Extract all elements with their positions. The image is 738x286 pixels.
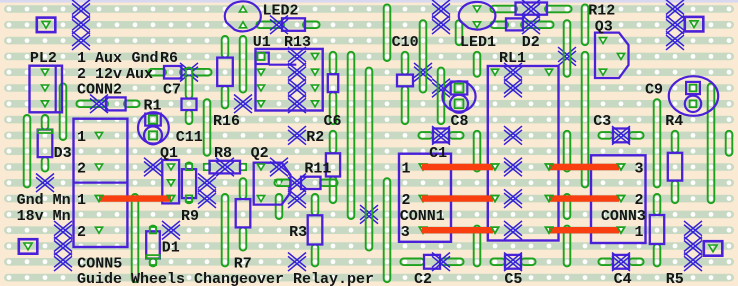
RL1 pin col 27 row 12 — [491, 196, 498, 202]
pad P2 (mount pad, col 1 row 15) — [19, 239, 38, 254]
svg-text:R6: R6 — [160, 50, 178, 67]
svg-text:LED2: LED2 — [263, 3, 299, 20]
label "Guide Wheels Changeover Relay.per" — [77, 271, 374, 286]
label "2 12v" — [77, 66, 122, 83]
track cut at col 16 row 6 (under U1) — [288, 95, 306, 114]
label "C4" — [614, 271, 632, 286]
svg-text:C11: C11 — [176, 129, 203, 146]
track cut at col 9 row 14 — [162, 221, 180, 240]
label "R5" — [666, 271, 684, 286]
Q2 pin middle — [275, 180, 282, 186]
label "C3" — [593, 113, 611, 130]
Q2 pin row 10 — [257, 164, 264, 170]
capacitor C4 — [598, 253, 643, 272]
pad P3 (mount pad, col 38 row 1) — [685, 17, 704, 32]
track cut at col 13 row 6 — [234, 95, 252, 114]
svg-text:R4: R4 — [665, 113, 683, 130]
label "LED2" — [263, 3, 299, 20]
wire link col 31 rows 1-4 — [564, 20, 571, 77]
label "Gnd Mn" — [17, 192, 71, 209]
red link CONN1 to RL1 row 14 — [419, 227, 498, 233]
wire link col 3 rows 5-8 — [60, 83, 67, 140]
capacitor C2 — [400, 253, 463, 272]
capacitor C1 — [418, 126, 463, 145]
label "R4" — [665, 113, 683, 130]
label "RL1" — [499, 50, 526, 67]
PL2 pin 1 — [41, 69, 48, 75]
wire link col 7 rows 12-17 — [132, 194, 139, 282]
svg-text:D1: D1 — [162, 240, 180, 257]
RL1 pin col 30 row 4 — [545, 69, 552, 75]
wire link col 40 rows 8-9 — [726, 131, 733, 156]
Q3 pin 3 — [599, 69, 606, 75]
svg-text:Aux: Aux — [126, 66, 153, 83]
LED1 outline — [459, 2, 496, 30]
label "C9" — [645, 82, 663, 99]
track cut at col 37 row 1 — [666, 16, 684, 35]
resistor R5 — [650, 194, 664, 266]
relay RL1 outline — [488, 66, 559, 241]
track cut at col 24 row 0 — [432, 0, 450, 18]
red link RL1 to CONN3 row 14 — [545, 227, 624, 233]
svg-text:CONN2: CONN2 — [77, 82, 122, 99]
RL1 pin col 30 row 12 — [545, 196, 552, 202]
transistor Q1 outline — [162, 160, 179, 203]
label "C11" — [176, 129, 203, 146]
track cut at col 15 row 10 (on Q2) — [270, 158, 288, 177]
svg-text:D3: D3 — [54, 145, 72, 162]
label "C8" — [451, 113, 469, 130]
svg-text:LED1: LED1 — [460, 34, 496, 51]
label "C1" — [429, 145, 447, 162]
wire link col 24 rows 4-7 — [438, 68, 445, 125]
track cut at col 3 row 16 — [54, 253, 72, 272]
capacitor C6 — [328, 52, 338, 124]
track cut at col 16 row 3 (under U1) — [288, 47, 306, 66]
svg-text:1: 1 — [402, 161, 411, 178]
label "R13" — [284, 34, 311, 51]
label "C10" — [392, 34, 419, 51]
svg-text:U1: U1 — [253, 34, 271, 51]
label "D2" — [522, 34, 540, 51]
connector CONN3 outline — [591, 155, 646, 243]
label "C5" — [504, 271, 522, 286]
svg-text:Q2: Q2 — [251, 145, 269, 162]
connector CONN5 outline — [74, 119, 128, 247]
wire link col 26 rows 8-10 — [474, 131, 481, 172]
track cut at col 37 row 2 — [666, 31, 684, 50]
svg-text:C6: C6 — [324, 113, 342, 130]
label "R6" — [160, 50, 178, 67]
track cut at col 8 row 10 — [144, 158, 162, 177]
op-amp U1 (DIP-8) — [256, 49, 323, 111]
pad P4 (mount pad, col 39 row 15) — [704, 241, 723, 256]
CONN3 pin row 10 — [617, 164, 624, 170]
wire link col 31 rows 8-10 — [564, 131, 571, 172]
wire link col 12 rows 12-16 — [222, 194, 229, 266]
track cut at col 28 row 12 (under RL1) — [504, 189, 522, 208]
label "R2" — [306, 129, 324, 146]
track cut at col 28 row 10 (under RL1) — [504, 158, 522, 177]
svg-text:C1: C1 — [429, 145, 447, 162]
connector CONN1 outline — [399, 154, 451, 242]
red link CONN1 to RL1 row 10 — [419, 164, 498, 170]
wire link col 26 rows 14-16 — [474, 226, 481, 267]
track cut at col 20 row 13 — [360, 205, 378, 224]
pad P1 (mount pad, col 2 row 1) — [37, 18, 56, 32]
CONN5 pin 1b — [95, 196, 102, 202]
track cut at col 38 row 15 — [684, 237, 702, 256]
svg-text:1: 1 — [77, 192, 86, 209]
resistor R16 — [217, 36, 233, 108]
svg-text:Gnd Mn: Gnd Mn — [17, 192, 71, 209]
track cut at col 28 row 4 (under RL1) — [504, 63, 522, 82]
label "3" — [635, 161, 644, 178]
svg-text:CONN1: CONN1 — [400, 208, 445, 225]
wire link col 32 rows 0-2 — [582, 4, 589, 45]
label "D1" — [162, 240, 180, 257]
connector PL2 outline — [30, 66, 63, 113]
CONN1 pin row 14 — [419, 227, 426, 233]
svg-text:C8: C8 — [451, 113, 469, 130]
svg-text:R7: R7 — [234, 255, 252, 272]
label "LED1" — [460, 34, 496, 51]
label "Q3" — [595, 18, 613, 35]
svg-text:R5: R5 — [666, 271, 684, 286]
label "R1" — [144, 97, 162, 114]
RL1 pin col 30 row 14 — [545, 227, 552, 233]
CONN5 pin 1a — [95, 132, 102, 138]
track cut at col 24 row 1 — [432, 16, 450, 35]
svg-text:R2: R2 — [306, 129, 324, 146]
diode D3 — [38, 115, 53, 172]
Q3 pin 2 — [617, 53, 624, 59]
label "R7" — [234, 255, 252, 272]
svg-text:D2: D2 — [522, 34, 540, 51]
label "1" — [635, 224, 644, 241]
RL1 pin col 30 row 10 — [545, 164, 552, 170]
wire link col 15 rows 12-13 — [276, 194, 283, 219]
LED2 outline — [225, 1, 261, 31]
track cut at col 16 row 4 (under U1) — [288, 63, 306, 82]
Q1 pin row 11 — [167, 180, 174, 186]
label "CONN1" — [400, 208, 445, 225]
label "1" — [77, 192, 86, 209]
svg-text:2 12v: 2 12v — [77, 66, 122, 83]
resistor R8 — [204, 158, 246, 177]
CONN5 pin 2b — [95, 227, 102, 233]
wire link col 25 rows 1-2 — [456, 20, 463, 45]
wire link col 32 rows 3-11 — [582, 52, 589, 188]
svg-text:R11: R11 — [304, 161, 331, 178]
svg-text:3: 3 — [635, 161, 644, 178]
label "R9" — [181, 208, 199, 225]
label "R11" — [304, 161, 331, 178]
label "CONN2" — [77, 82, 122, 99]
wire link col 26 rows 3-4 — [474, 52, 481, 77]
label "CONN5" — [77, 255, 122, 272]
wire link col 21 rows 11-17 — [384, 178, 391, 282]
label "1 Aux" — [77, 50, 122, 67]
transistor Q2 outline — [254, 163, 291, 205]
label "2" — [402, 192, 411, 209]
diode D2 — [490, 16, 553, 35]
svg-text:CONN5: CONN5 — [77, 255, 122, 272]
svg-text:R9: R9 — [181, 208, 199, 225]
wire link col 39 rows 5-12 — [708, 83, 715, 203]
svg-text:CONN3: CONN3 — [601, 208, 646, 225]
track cut at col 28 row 8 (under RL1) — [504, 126, 522, 145]
svg-text:C4: C4 — [614, 271, 632, 286]
resistor R6 — [148, 63, 211, 82]
svg-text:R13: R13 — [284, 34, 311, 51]
PL2 pin 3 — [41, 101, 48, 107]
resistor R13 — [256, 16, 319, 35]
CONN3 pin row 14 — [617, 227, 624, 233]
label "2" — [635, 192, 644, 209]
track cut at col 16 row 16 — [288, 253, 306, 272]
wire link col 20 rows 4-15 — [366, 68, 373, 251]
label "3" — [401, 224, 410, 241]
Q3 pin 1 — [599, 38, 606, 44]
track cut at col 4 row 1 — [72, 16, 90, 35]
svg-text:2: 2 — [77, 224, 86, 241]
CONN5 pin 2a — [95, 164, 102, 170]
svg-text:18v Mn: 18v Mn — [17, 208, 71, 225]
red link CONN1 to RL1 row 12 — [419, 196, 498, 202]
resistor R7 — [236, 178, 251, 250]
svg-text:2: 2 — [77, 161, 86, 178]
svg-text:R16: R16 — [213, 113, 240, 130]
capacitor C10 — [397, 52, 413, 124]
track cut at col 16 row 8 — [288, 126, 306, 145]
PL2 pin 2 — [41, 85, 48, 91]
svg-text:Guide Wheels Changeover Relay.: Guide Wheels Changeover Relay.per — [77, 271, 374, 286]
wire link col 1 rows 7-11 — [24, 115, 31, 187]
wire link col 13 rows 2-5 — [240, 36, 247, 93]
label "CONN3" — [601, 208, 646, 225]
red link CONN5 pin1b to Q1 pin3 — [95, 196, 174, 202]
label "1" — [402, 161, 411, 178]
wire link col 11 rows 6-9 — [204, 99, 211, 156]
resistor R9 — [182, 162, 196, 203]
track cut at col 3 row 14 — [54, 221, 72, 240]
label "18v Mn" — [17, 208, 71, 225]
svg-text:Q1: Q1 — [160, 145, 178, 162]
track cut at col 28 row 5 (under RL1) — [504, 79, 522, 98]
track cut at col 11 row 12 — [198, 189, 216, 208]
track cut at col 2 row 11 — [36, 174, 54, 193]
resistor R12 — [490, 0, 571, 18]
label "C7" — [163, 82, 181, 99]
RL1 pin col 27 row 4 — [491, 69, 498, 75]
label "D3" — [54, 145, 72, 162]
svg-text:2: 2 — [402, 192, 411, 209]
svg-text:C5: C5 — [504, 271, 522, 286]
Q2 pin row 12 — [257, 196, 264, 202]
svg-text:1: 1 — [635, 224, 644, 241]
svg-text:C10: C10 — [392, 34, 419, 51]
track cut at col 16 row 12 — [288, 189, 306, 208]
capacitor C11 — [138, 112, 169, 144]
label "2" — [77, 161, 86, 178]
capacitor C3 — [598, 126, 643, 145]
track cut at col 31 row 3 — [558, 47, 576, 66]
resistor R2 — [326, 131, 340, 203]
capacitor C7 — [182, 68, 197, 125]
svg-text:Q3: Q3 — [595, 18, 613, 35]
svg-text:R1: R1 — [144, 97, 162, 114]
svg-text:R3: R3 — [289, 224, 307, 241]
red link RL1 to CONN3 row 10 — [545, 164, 624, 170]
label "2" — [77, 224, 86, 241]
track cut at col 38 row 14 — [684, 221, 702, 240]
diode D1 — [146, 226, 160, 267]
track cut at col 23 row 4 — [414, 63, 432, 82]
label "Q2" — [251, 145, 269, 162]
svg-text:C3: C3 — [593, 113, 611, 130]
label "1" — [77, 129, 86, 146]
capacitor C8 — [442, 81, 475, 113]
label "Gnd" — [132, 50, 159, 67]
CONN3 pin row 12 — [617, 196, 624, 202]
capacitor C9 — [669, 76, 718, 116]
wire link col 31 rows 12-13 — [564, 194, 571, 219]
svg-text:C7: C7 — [163, 82, 181, 99]
label "PL2" — [30, 50, 57, 67]
track cut at col 28 row 14 (under RL1) — [504, 221, 522, 240]
CONN1 pin row 10 — [419, 164, 426, 170]
track cut at col 24 row 5 — [432, 79, 450, 98]
resistor R3 — [308, 194, 323, 266]
resistor R4 — [668, 131, 682, 203]
resistor R11 — [274, 174, 337, 193]
label "R16" — [213, 113, 240, 130]
wire link col 21 rows 0-3 — [384, 4, 391, 61]
transistor Q3 outline — [595, 33, 629, 78]
wire link col 19 rows 3-13 — [348, 52, 355, 219]
label "C6" — [324, 113, 342, 130]
svg-text:1 Aux: 1 Aux — [77, 50, 122, 67]
wire link col 36 rows 6-11 — [654, 99, 661, 187]
svg-text:R8: R8 — [214, 145, 232, 162]
Q1 pin row 12 — [167, 196, 174, 202]
track cut at col 37 row 0 — [666, 0, 684, 18]
label "Q1" — [160, 145, 178, 162]
svg-text:C2: C2 — [414, 271, 432, 286]
wire link col 23 rows 1-5 — [420, 20, 427, 92]
track cut at col 4 row 2 — [72, 31, 90, 50]
track cut at col 3 row 15 — [54, 237, 72, 256]
svg-text:Gnd: Gnd — [132, 50, 159, 67]
svg-text:RL1: RL1 — [499, 50, 526, 67]
svg-text:2: 2 — [635, 192, 644, 209]
label "C2" — [414, 271, 432, 286]
RL1 pin col 27 row 10 — [491, 164, 498, 170]
svg-text:R12: R12 — [588, 3, 615, 20]
label "U1" — [253, 34, 271, 51]
track cut at col 4 row 0 — [72, 0, 90, 18]
label "Aux" — [126, 66, 153, 83]
svg-text:C9: C9 — [645, 82, 663, 99]
capacitor C5 — [490, 253, 535, 272]
wire link col 31 rows 14-16 — [564, 226, 571, 267]
CONN1 pin row 12 — [419, 196, 426, 202]
RL1 pin col 27 row 14 — [491, 227, 498, 233]
svg-text:PL2: PL2 — [30, 50, 57, 67]
svg-text:3: 3 — [401, 224, 410, 241]
track cut at col 11 row 11 — [198, 174, 216, 193]
svg-text:1: 1 — [77, 129, 86, 146]
label "R12" — [588, 3, 615, 20]
label "R8" — [214, 145, 232, 162]
track cut at col 16 row 5 (under U1) — [288, 79, 306, 98]
red link RL1 to CONN3 row 12 — [545, 196, 624, 202]
track cut at col 38 row 16 — [684, 253, 702, 272]
resistor R1 — [76, 95, 139, 114]
Q1 pin row 10 — [167, 164, 174, 170]
label "R3" — [289, 224, 307, 241]
